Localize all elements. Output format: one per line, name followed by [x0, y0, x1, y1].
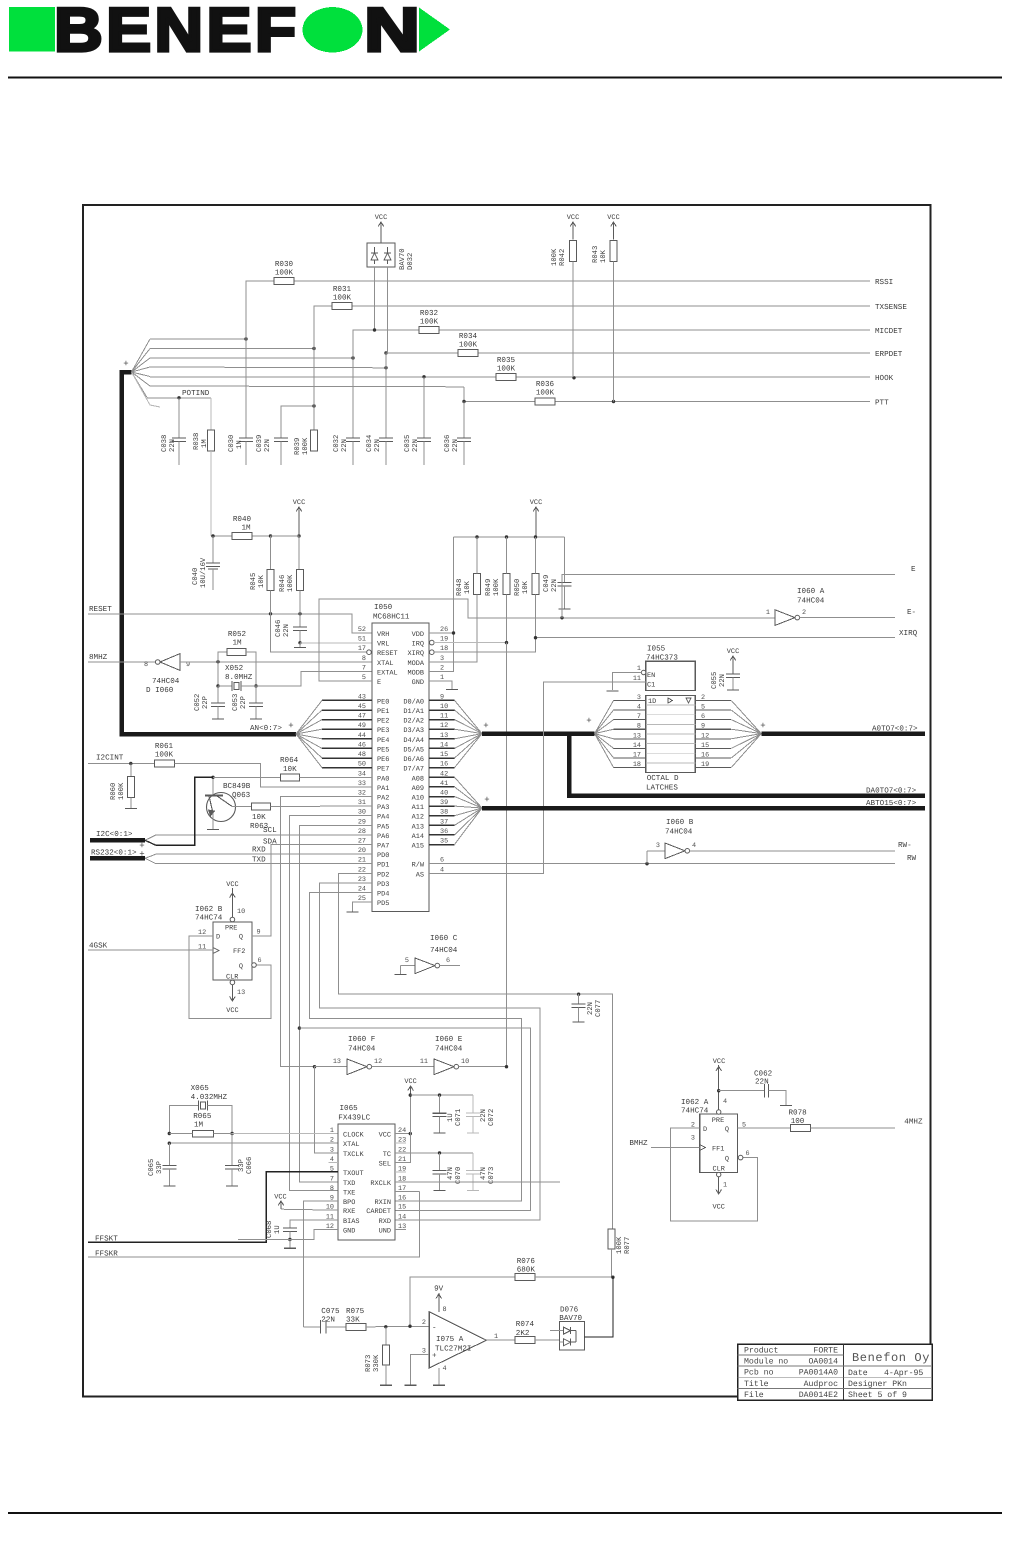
- svg-text:8: 8: [330, 1185, 334, 1193]
- svg-text:74HC04: 74HC04: [435, 1045, 463, 1054]
- svg-text:D7/A7: D7/A7: [403, 766, 424, 774]
- svg-text:X065: X065: [191, 1084, 210, 1093]
- capacitor C073: [466, 1153, 496, 1191]
- svg-text:2: 2: [422, 1319, 426, 1327]
- svg-text:C035: C035: [404, 435, 412, 452]
- svg-text:D6/A6: D6/A6: [403, 756, 424, 764]
- resistor R042: [551, 214, 579, 377]
- svg-text:SDA: SDA: [263, 838, 277, 847]
- FF2 PRE to VCC: [226, 881, 245, 922]
- svg-text:+: +: [760, 721, 765, 731]
- resistor R061: [155, 742, 373, 787]
- svg-text:Date: Date: [848, 1369, 868, 1378]
- resistor R030: [274, 260, 294, 285]
- svg-text:8.0MHZ: 8.0MHZ: [225, 673, 253, 682]
- svg-text:TXSENSE: TXSENSE: [875, 303, 907, 312]
- svg-text:CLOCK: CLOCK: [343, 1132, 365, 1140]
- svg-text:Module no: Module no: [744, 1358, 788, 1367]
- top rule: [8, 77, 1002, 79]
- transistor Q063 BC849B: [205, 777, 251, 829]
- IC I065 FX439LC: [338, 1104, 395, 1240]
- net VRL wire: [300, 642, 372, 644]
- svg-text:1M: 1M: [241, 525, 251, 533]
- net I2CINT: [88, 754, 155, 766]
- net R/W wire: [429, 855, 917, 865]
- svg-text:PRE: PRE: [225, 925, 237, 933]
- svg-text:7: 7: [330, 1175, 334, 1183]
- svg-text:D: D: [703, 1126, 707, 1134]
- svg-text:X052: X052: [225, 664, 244, 673]
- svg-text:PA3: PA3: [377, 804, 389, 812]
- svg-text:100K: 100K: [287, 574, 295, 592]
- wire PA5 branch to CARDET: [298, 1026, 531, 1210]
- resistor R039: [294, 349, 318, 456]
- svg-text:File: File: [744, 1391, 764, 1400]
- svg-text:PA7: PA7: [377, 843, 389, 851]
- svg-text:51: 51: [358, 636, 366, 644]
- bus RS232<0:1> entry: [90, 849, 156, 864]
- svg-text:R/W: R/W: [412, 862, 425, 870]
- svg-text:RESET: RESET: [377, 650, 398, 658]
- svg-text:EN: EN: [647, 672, 655, 680]
- ground at C046: [294, 643, 306, 648]
- svg-text:74HC04: 74HC04: [665, 828, 693, 837]
- svg-text:VCC: VCC: [713, 1058, 725, 1066]
- svg-text:C040: C040: [192, 568, 200, 585]
- svg-text:D0/A0: D0/A0: [403, 698, 424, 706]
- inverter I060 D (74HC04): [144, 654, 372, 695]
- svg-text:100K: 100K: [302, 437, 310, 455]
- svg-text:C038: C038: [161, 435, 169, 452]
- svg-text:R078: R078: [789, 1108, 808, 1117]
- analog fan wires: [132, 339, 465, 407]
- svg-text:UND: UND: [379, 1227, 391, 1235]
- svg-text:C072: C072: [488, 1109, 496, 1126]
- svg-text:4GSK: 4GSK: [89, 942, 108, 951]
- wire to FX TXCLK: [315, 1067, 339, 1153]
- latch OCTAL D LATCHES label: [646, 774, 679, 793]
- I050 PE pin rows: [322, 693, 455, 773]
- svg-text:1M: 1M: [232, 640, 242, 648]
- svg-text:VCC: VCC: [226, 881, 238, 889]
- net VDD/MODB wire: [429, 537, 455, 671]
- resistor R077: [608, 1229, 632, 1277]
- VCC rail above I050: [454, 499, 565, 539]
- svg-text:A11: A11: [412, 804, 424, 812]
- svg-text:22N: 22N: [321, 1316, 335, 1325]
- bus A0TO7 thick: [482, 721, 925, 734]
- svg-text:VCC: VCC: [375, 214, 387, 222]
- wire PD4 to FX RXIN: [309, 893, 521, 1201]
- svg-text:MC68HC11: MC68HC11: [373, 613, 410, 622]
- FF1 CLR to VCC: [712, 1172, 727, 1211]
- net FFSKR to FX pin 17: [88, 1191, 420, 1258]
- svg-text:TXD: TXD: [343, 1180, 355, 1188]
- svg-text:BC849B: BC849B: [223, 782, 251, 791]
- svg-text:ABTO15<0:7>: ABTO15<0:7>: [866, 799, 917, 808]
- capacitor C066: [225, 1134, 254, 1187]
- wire PA2 south: [281, 797, 372, 1067]
- svg-text:Title: Title: [744, 1380, 769, 1389]
- svg-text:C034: C034: [366, 435, 374, 452]
- svg-text:12: 12: [374, 1058, 382, 1066]
- net 8MHZ label: [88, 653, 155, 662]
- svg-text:1N: 1N: [236, 440, 244, 449]
- resistor R078: [789, 1108, 923, 1131]
- capacitor C034: [366, 368, 393, 465]
- svg-text:22N: 22N: [755, 1078, 769, 1087]
- svg-text:5: 5: [330, 1166, 334, 1174]
- resistor R035: [496, 356, 516, 381]
- svg-text:A08: A08: [412, 775, 424, 783]
- wire PA4 to FX TXE: [290, 816, 372, 1191]
- svg-text:D2/A2: D2/A2: [403, 718, 424, 726]
- svg-text:I065: I065: [340, 1104, 359, 1113]
- svg-text:HOOK: HOOK: [875, 374, 894, 383]
- svg-text:PE0: PE0: [377, 698, 389, 706]
- svg-text:R036: R036: [536, 380, 555, 389]
- svg-text:I060 E: I060 E: [435, 1035, 463, 1044]
- svg-text:PA1: PA1: [377, 785, 389, 793]
- resistor R076: [410, 1257, 615, 1326]
- wire PD2 to C077 and R077: [338, 873, 612, 1229]
- svg-text:MICDET: MICDET: [875, 327, 903, 336]
- svg-text:E: E: [377, 679, 381, 687]
- op-amp I075 A TLC27M2I: [404, 1284, 515, 1385]
- svg-text:10: 10: [461, 1058, 469, 1066]
- I050 left pin labels: [358, 626, 398, 687]
- svg-text:R034: R034: [459, 332, 478, 341]
- resistor R043: [592, 214, 620, 402]
- net RXCLK stub: [395, 1181, 560, 1183]
- svg-text:1: 1: [330, 1127, 334, 1135]
- net AS to latch C1: [429, 682, 646, 874]
- svg-text:+: +: [586, 716, 591, 726]
- svg-text:I060 B: I060 B: [666, 818, 694, 827]
- svg-text:8: 8: [362, 655, 366, 663]
- svg-text:RXD: RXD: [379, 1218, 391, 1226]
- svg-text:22P: 22P: [202, 696, 210, 709]
- svg-text:680K: 680K: [517, 1266, 536, 1275]
- svg-text:AN<0:7>: AN<0:7>: [250, 724, 282, 733]
- schematic frame: [83, 205, 931, 1397]
- svg-text:6: 6: [258, 957, 262, 965]
- svg-text:Designer PKn: Designer PKn: [848, 1380, 907, 1389]
- svg-text:A14: A14: [412, 833, 424, 841]
- capacitor C053: [232, 686, 263, 719]
- svg-text:10K: 10K: [522, 580, 530, 594]
- svg-text:I055: I055: [647, 645, 666, 654]
- svg-text:C030: C030: [228, 435, 236, 452]
- svg-text:MODB: MODB: [407, 669, 424, 677]
- svg-text:Q: Q: [239, 934, 243, 942]
- FX439 unconnected stubs: [329, 1143, 420, 1191]
- FX439 pin labels: [326, 1127, 406, 1235]
- svg-text:100K: 100K: [118, 782, 126, 800]
- net HOOK wire: [150, 374, 894, 383]
- svg-text:74HC74: 74HC74: [195, 914, 223, 923]
- svg-text:FF2: FF2: [233, 948, 245, 956]
- net XTAL wire: [168, 1142, 338, 1145]
- FF2 CLR to VCC: [226, 980, 245, 1015]
- resistor R040: [211, 515, 301, 540]
- net RSSI wire: [244, 278, 893, 341]
- svg-text:R045: R045: [250, 573, 258, 590]
- svg-text:BAV70: BAV70: [399, 248, 407, 270]
- svg-text:XTAL: XTAL: [377, 660, 394, 668]
- IC I055 74HC373 octal latch: [633, 645, 695, 773]
- net RXD: [156, 847, 372, 855]
- bottom rule: [8, 1512, 1002, 1514]
- net E wire: [319, 566, 916, 681]
- svg-text:PE7: PE7: [377, 766, 389, 774]
- svg-text:PD4: PD4: [377, 891, 389, 899]
- capacitor C030: [228, 339, 253, 465]
- svg-text:R052: R052: [228, 630, 247, 639]
- capacitor C040: [192, 536, 220, 590]
- diode D032 BAV70: [367, 214, 415, 353]
- svg-text:Q063: Q063: [232, 791, 251, 800]
- svg-text:PE2: PE2: [377, 718, 389, 726]
- VCC arrow at R046: [293, 499, 305, 570]
- svg-text:8: 8: [443, 1306, 447, 1314]
- svg-text:SEL: SEL: [379, 1160, 391, 1168]
- title block: [738, 1344, 933, 1400]
- svg-text:C053: C053: [232, 694, 240, 711]
- svg-text:RXE: RXE: [343, 1208, 355, 1216]
- svg-text:C049: C049: [543, 575, 551, 592]
- svg-text:PD2: PD2: [377, 871, 389, 879]
- svg-text:BIAS: BIAS: [343, 1218, 360, 1226]
- svg-text:IRQ: IRQ: [412, 641, 424, 649]
- svg-text:R075: R075: [346, 1307, 365, 1316]
- svg-text:RS232<0:1>: RS232<0:1>: [91, 849, 137, 858]
- net PTT wire: [462, 387, 889, 408]
- net RESET to pin 17: [271, 591, 372, 655]
- svg-text:C077: C077: [595, 1000, 603, 1017]
- net SEL to VCC: [395, 1134, 410, 1163]
- svg-text:VCC: VCC: [530, 499, 542, 507]
- svg-text:PE5: PE5: [377, 746, 389, 754]
- svg-text:100K: 100K: [420, 318, 439, 327]
- svg-text:5: 5: [405, 957, 409, 965]
- long vertical IRQ to inverter E output: [506, 643, 508, 1067]
- svg-text:PA6: PA6: [377, 833, 389, 841]
- svg-text:10: 10: [237, 908, 245, 916]
- svg-text:Q: Q: [725, 1156, 729, 1164]
- resistor R060: [110, 764, 137, 809]
- svg-text:RXCLK: RXCLK: [370, 1180, 392, 1188]
- svg-text:2: 2: [330, 1137, 334, 1145]
- net FX VCC pin 24: [395, 1078, 473, 1135]
- svg-text:9V: 9V: [434, 1284, 444, 1293]
- capacitor C070: [433, 1153, 464, 1191]
- svg-text:RSSI: RSSI: [875, 278, 893, 287]
- net TXOUT to FFSKT: [88, 1172, 338, 1244]
- svg-text:-: -: [432, 1325, 437, 1333]
- svg-text:100K: 100K: [459, 341, 478, 350]
- resistor R031: [332, 285, 352, 310]
- svg-text:+: +: [483, 721, 488, 731]
- svg-text:VCC: VCC: [607, 214, 619, 222]
- capacitor C039: [256, 404, 316, 465]
- svg-text:PE6: PE6: [377, 756, 389, 764]
- resistor R050: [514, 537, 539, 638]
- svg-text:FORTE: FORTE: [813, 1347, 838, 1356]
- svg-text:47N: 47N: [447, 1167, 455, 1180]
- resistor R034: [458, 332, 478, 357]
- resistor R073: [365, 1327, 392, 1385]
- resistor R052: [218, 630, 256, 686]
- svg-text:R061: R061: [155, 742, 174, 751]
- svg-text:FF1: FF1: [712, 1146, 724, 1154]
- svg-text:OA0014: OA0014: [809, 1358, 839, 1367]
- svg-text:74HC04: 74HC04: [348, 1045, 376, 1054]
- svg-text:22N: 22N: [587, 1002, 595, 1015]
- bus ABTO15 thick: [482, 799, 925, 808]
- svg-text:7: 7: [362, 664, 366, 672]
- svg-text:C066: C066: [246, 1157, 254, 1174]
- inverter I060 E (74HC04): [420, 1035, 508, 1075]
- FF2 Q pin 9: [252, 929, 271, 937]
- latch bus rippers: [586, 700, 761, 767]
- svg-text:11: 11: [420, 1058, 428, 1066]
- svg-text:TXE: TXE: [343, 1189, 355, 1197]
- svg-text:D1/A1: D1/A1: [403, 708, 424, 716]
- svg-text:+: +: [123, 359, 128, 369]
- capacitor C075: [321, 1307, 347, 1334]
- svg-text:A10: A10: [412, 795, 424, 803]
- net SDA (to Q063 base): [156, 777, 277, 846]
- svg-text:D I060: D I060: [146, 686, 174, 695]
- svg-text:I2CINT: I2CINT: [96, 754, 124, 763]
- resistor R046: [279, 570, 304, 614]
- svg-text:TXD: TXD: [252, 856, 266, 864]
- svg-text:FX439LC: FX439LC: [338, 1113, 370, 1122]
- svg-text:15: 15: [398, 1204, 406, 1212]
- svg-text:100K: 100K: [536, 389, 555, 398]
- svg-text:4: 4: [440, 866, 444, 874]
- svg-text:C039: C039: [256, 435, 264, 452]
- svg-text:GND: GND: [412, 679, 424, 687]
- latch EN pin ground: [607, 670, 646, 691]
- svg-text:+: +: [432, 1353, 437, 1361]
- wire PA7 to FF2 Q: [252, 845, 372, 936]
- capacitor C038: [161, 398, 186, 465]
- net TXD: [156, 856, 372, 864]
- resistor R064: [211, 756, 372, 781]
- svg-text:C055: C055: [711, 672, 719, 689]
- svg-text:22N: 22N: [169, 439, 177, 452]
- resistor R038: [193, 398, 215, 536]
- svg-text:I060 A: I060 A: [797, 587, 825, 596]
- svg-text:R032: R032: [420, 309, 439, 318]
- svg-text:22N: 22N: [719, 674, 727, 687]
- svg-text:14: 14: [398, 1213, 406, 1221]
- svg-text:100K: 100K: [155, 751, 174, 760]
- svg-text:CARDET: CARDET: [366, 1208, 391, 1216]
- svg-text:74HC04: 74HC04: [797, 597, 825, 606]
- capacitor C065: [148, 1143, 176, 1186]
- capacitor C036: [444, 402, 471, 466]
- svg-text:PD1: PD1: [377, 862, 389, 870]
- svg-text:22N: 22N: [264, 439, 272, 452]
- svg-text:PA0014A0: PA0014A0: [799, 1369, 838, 1378]
- capacitor C062: [719, 1070, 792, 1106]
- svg-text:1M: 1M: [194, 1122, 204, 1130]
- svg-text:A15: A15: [412, 843, 424, 851]
- svg-text:R064: R064: [280, 756, 299, 765]
- inverter I060 C (74HC04) spare: [395, 934, 460, 975]
- svg-text:DA0TO7<0:7>: DA0TO7<0:7>: [866, 787, 917, 796]
- svg-text:TXOUT: TXOUT: [343, 1170, 364, 1178]
- resistor R063: [232, 803, 372, 831]
- svg-text:R065: R065: [193, 1112, 212, 1121]
- capacitor C052: [194, 686, 225, 719]
- svg-text:52: 52: [358, 626, 366, 634]
- svg-text:100K: 100K: [616, 1236, 624, 1254]
- svg-text:C062: C062: [754, 1070, 773, 1079]
- svg-text:1: 1: [766, 609, 770, 617]
- svg-text:R060: R060: [110, 783, 118, 800]
- capacitor C035: [404, 377, 431, 465]
- svg-text:XIRQ: XIRQ: [899, 629, 918, 638]
- svg-text:2: 2: [802, 609, 806, 617]
- capacitor C046: [275, 614, 307, 645]
- svg-text:C071: C071: [455, 1109, 463, 1126]
- svg-text:1U: 1U: [447, 1113, 455, 1122]
- svg-text:TC: TC: [383, 1151, 391, 1159]
- svg-text:PD3: PD3: [377, 881, 389, 889]
- resistor R075: [346, 1307, 429, 1330]
- svg-text:4.032MHZ: 4.032MHZ: [191, 1093, 228, 1102]
- net ERPDET wire: [384, 351, 902, 369]
- svg-text:PE4: PE4: [377, 737, 389, 745]
- svg-text:PA5: PA5: [377, 823, 389, 831]
- svg-text:3: 3: [656, 842, 660, 850]
- svg-text:VCC: VCC: [727, 648, 739, 656]
- ground at PD5: [346, 902, 372, 912]
- svg-text:PTT: PTT: [875, 400, 889, 408]
- wire PA5 to FX TXD: [299, 825, 372, 1182]
- svg-text:Q: Q: [725, 1126, 729, 1134]
- svg-text:8MHZ: 8MHZ: [89, 653, 108, 662]
- resistor R065: [169, 1112, 232, 1137]
- net IRQ wire: [430, 640, 509, 645]
- svg-text:E-: E-: [907, 609, 916, 617]
- svg-text:AS: AS: [416, 871, 424, 879]
- svg-text:R042: R042: [559, 249, 567, 266]
- svg-text:10K: 10K: [252, 813, 266, 822]
- svg-text:I2C<0:1>: I2C<0:1>: [96, 830, 133, 839]
- svg-text:VRH: VRH: [377, 631, 389, 639]
- capacitor C049: [543, 537, 572, 609]
- svg-text:C046: C046: [275, 620, 283, 637]
- svg-text:TLC27M2I: TLC27M2I: [435, 1345, 471, 1354]
- svg-text:R031: R031: [333, 285, 352, 294]
- bus DA0TO7 thick: [569, 734, 925, 796]
- resistor R074: [515, 1320, 559, 1344]
- capacitor C077: [572, 993, 603, 1023]
- svg-text:Q: Q: [239, 963, 243, 971]
- capacitor C055: [711, 648, 740, 690]
- net UND stub: [395, 1228, 406, 1230]
- svg-text:Pcb no: Pcb no: [744, 1369, 774, 1378]
- svg-text:D: D: [216, 934, 220, 942]
- net 4GSK to FF2 clock: [88, 942, 213, 952]
- left analog bus (thick): [122, 359, 297, 734]
- svg-text:VRL: VRL: [377, 641, 389, 649]
